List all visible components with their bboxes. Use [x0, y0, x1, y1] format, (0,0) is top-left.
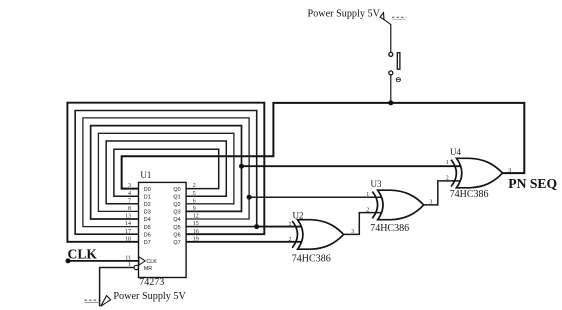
svg-text:3: 3	[351, 229, 354, 235]
wire tap Q4 to U3 pin1	[249, 196, 383, 198]
wire tap Q3 to U4 pin1	[242, 165, 463, 167]
wire switch to top rail	[390, 24, 392, 52]
svg-text:17: 17	[125, 229, 131, 235]
svg-text:2: 2	[446, 176, 449, 182]
svg-text:Q0: Q0	[173, 187, 180, 193]
node junction on Q5 wire	[254, 224, 259, 229]
svg-text:1: 1	[289, 221, 292, 227]
wire U2 output to U3 pin2	[344, 213, 384, 235]
svg-text:D5: D5	[144, 225, 151, 231]
svg-text:15: 15	[193, 221, 199, 227]
node junction on Q3 riser	[239, 164, 244, 169]
svg-text:2: 2	[193, 183, 196, 189]
wire feedback net: U4 output to top rail to D0 (thick)	[122, 103, 525, 189]
svg-text:Power Supply 5V: Power Supply 5V	[308, 9, 381, 20]
switch S1 pushbutton	[389, 52, 393, 56]
svg-text:4: 4	[128, 191, 131, 197]
svg-text:18: 18	[125, 236, 131, 242]
wire loop Q0 to D1	[114, 149, 219, 196]
wire loop Q4 to D5	[83, 118, 249, 227]
svg-text:D7: D7	[144, 240, 151, 246]
svg-text:Q2: Q2	[173, 202, 180, 208]
svg-text:U2: U2	[293, 211, 304, 221]
svg-text:13: 13	[125, 214, 131, 220]
node junction switch to rail	[388, 100, 393, 105]
svg-text:Q1: Q1	[173, 194, 180, 200]
svg-text:Q7: Q7	[173, 240, 180, 246]
svg-text:Q5: Q5	[173, 225, 180, 231]
wire MR pin1 to power supply	[100, 268, 135, 307]
svg-text:12: 12	[193, 214, 199, 220]
wire CLK input to pin11	[68, 260, 139, 262]
svg-text:74273: 74273	[139, 277, 164, 288]
svg-text:U3: U3	[371, 179, 382, 189]
svg-text:9: 9	[193, 206, 196, 212]
svg-text:14: 14	[125, 221, 131, 227]
svg-text:74HC386: 74HC386	[292, 253, 331, 264]
wire power supply stub	[384, 20, 391, 25]
wire loop Q5 to D6	[75, 111, 257, 235]
register U1 74273	[139, 182, 187, 277]
pin clock triangle	[139, 257, 145, 265]
svg-text:D3: D3	[144, 210, 151, 216]
svg-text:2: 2	[289, 237, 292, 243]
svg-text:D0: D0	[144, 187, 151, 193]
svg-text:1: 1	[366, 192, 369, 198]
svg-text:16: 16	[193, 229, 199, 235]
svg-text:CLK: CLK	[68, 246, 98, 261]
wire Q7 to U2 pin2	[186, 241, 303, 243]
svg-text:19: 19	[193, 236, 199, 242]
svg-text:Q6: Q6	[173, 232, 180, 238]
svg-text:D6: D6	[144, 232, 151, 238]
svg-text:MR: MR	[144, 266, 152, 272]
svg-text:U1: U1	[140, 170, 151, 180]
svg-text:1: 1	[128, 262, 131, 268]
wire switch bottom to rail junction	[390, 75, 392, 103]
switch key label	[396, 78, 401, 82]
wire loop Q1 to D2	[106, 141, 226, 204]
pin numbers left 3 4 7 8 13 14 17 18	[125, 183, 131, 268]
svg-text:3: 3	[508, 168, 511, 174]
XOR gate U2 74HC386	[292, 211, 344, 265]
wire loop Q6 to D7	[67, 103, 264, 242]
svg-text:6: 6	[193, 198, 196, 204]
XOR gate U4 74HC386	[450, 147, 503, 200]
svg-text:8: 8	[128, 206, 131, 212]
svg-text:CLK: CLK	[146, 259, 157, 265]
pin numbers right 2 5 6 9 12 15 16 19	[193, 183, 199, 242]
node junction on Q4 riser	[247, 195, 252, 200]
power symbol Power Supply 5V (bottom)	[101, 296, 111, 307]
svg-text:3: 3	[128, 183, 131, 189]
svg-text:11: 11	[125, 256, 131, 262]
svg-text:U4: U4	[450, 147, 461, 157]
svg-text:5: 5	[193, 191, 196, 197]
svg-text:D1: D1	[144, 194, 151, 200]
svg-text:3: 3	[429, 200, 432, 206]
pin names Q0-Q7	[173, 187, 180, 246]
svg-text:Power Supply 5V: Power Supply 5V	[113, 291, 186, 302]
svg-text:D2: D2	[144, 202, 151, 208]
svg-text:Q3: Q3	[173, 210, 180, 216]
svg-text:74HC386: 74HC386	[450, 189, 489, 200]
wire loop Q3 to D4	[91, 126, 242, 219]
svg-text:2: 2	[366, 207, 369, 213]
power symbol Power Supply 5V (top)	[380, 13, 384, 20]
gate pin numbers	[289, 160, 449, 243]
svg-text:PN SEQ: PN SEQ	[508, 176, 557, 191]
wire Q5 extension to U2 pin1	[257, 226, 303, 228]
svg-text:7: 7	[128, 198, 131, 204]
svg-text:74HC386: 74HC386	[370, 223, 409, 234]
XOR gate U3 74HC386	[370, 179, 424, 234]
node CLK terminal dot	[66, 258, 71, 263]
pin names D0-D7	[144, 187, 157, 272]
wire loop Q2 to D3	[98, 133, 234, 211]
svg-text:D4: D4	[144, 217, 151, 223]
wire U3 output to U4 pin2	[424, 181, 462, 205]
svg-text:1: 1	[446, 160, 449, 166]
svg-text:Q4: Q4	[173, 217, 180, 223]
pin MR bubble	[134, 265, 138, 269]
